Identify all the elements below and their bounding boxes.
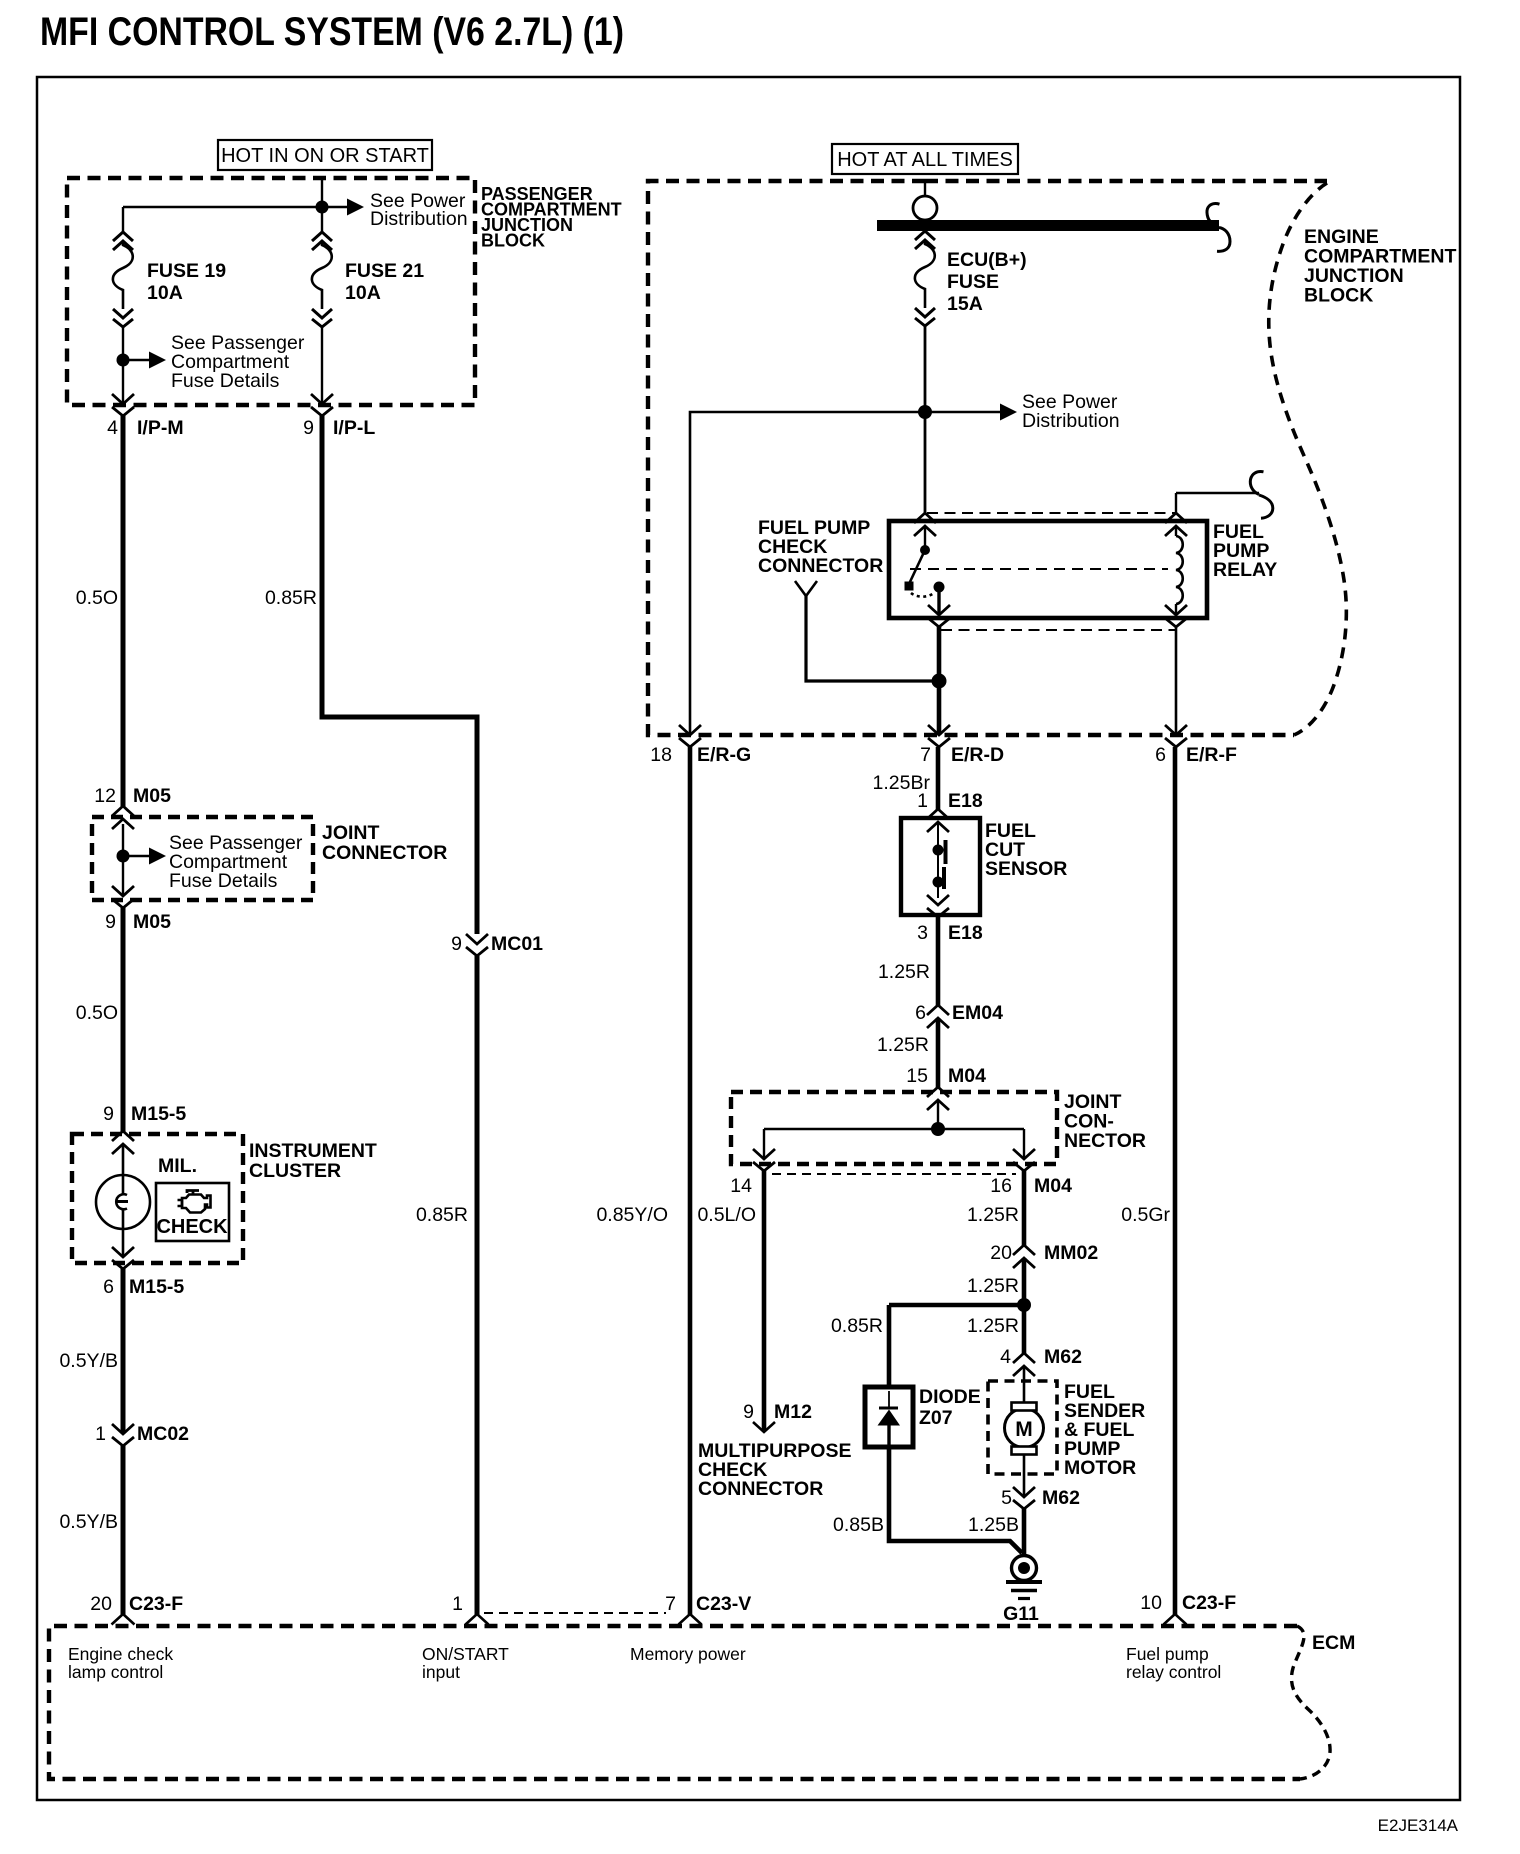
- svg-text:0.5Gr: 0.5Gr: [1121, 1204, 1170, 1226]
- label JOINT CON- NECTOR: [1064, 1091, 1146, 1152]
- svg-text:M62: M62: [1042, 1487, 1080, 1509]
- connector 6 M15-5: [103, 1247, 184, 1298]
- node joint connector: [931, 1122, 945, 1136]
- relay coil: [1176, 526, 1183, 614]
- wire inside joint connector: [122, 824, 124, 896]
- see power distribution arrow (top left): [322, 190, 468, 230]
- svg-text:E/R-F: E/R-F: [1186, 744, 1237, 766]
- wire motor down: [1023, 1454, 1026, 1496]
- wire fuse21 top stub: [321, 179, 323, 207]
- connector 4 M62: [1000, 1346, 1082, 1376]
- svg-text:20: 20: [90, 1593, 112, 1615]
- svg-text:M62: M62: [1044, 1346, 1082, 1368]
- svg-text:1.25R: 1.25R: [878, 961, 930, 983]
- wire W2 harness I/P-L down, jog right, down to MC01: [322, 414, 477, 934]
- wire branch 14 down to M12: [762, 1170, 767, 1430]
- label HOT AT ALL TIMES: [832, 144, 1018, 174]
- svg-text:10A: 10A: [147, 282, 183, 304]
- see power distribution arrow (engine block): [925, 391, 1120, 432]
- sensor FUEL CUT SENSOR box: [901, 818, 980, 915]
- svg-text:1: 1: [95, 1423, 106, 1445]
- svg-text:C23-F: C23-F: [1182, 1592, 1236, 1614]
- svg-text:lamp control: lamp control: [68, 1662, 163, 1682]
- svg-text:C23-F: C23-F: [129, 1593, 183, 1615]
- svg-text:M05: M05: [133, 785, 171, 807]
- wire horizontal to diode: [889, 1305, 1024, 1387]
- wire diode return to ground: [889, 1447, 1022, 1553]
- fuse FUSE 21 10A: [312, 207, 424, 327]
- connector 9 I/P-L: [303, 394, 375, 439]
- svg-text:M04: M04: [948, 1065, 986, 1087]
- svg-text:10A: 10A: [345, 282, 381, 304]
- svg-text:Distribution: Distribution: [1022, 410, 1120, 432]
- fuel sender dashed box: [988, 1381, 1057, 1474]
- svg-text:4: 4: [107, 417, 118, 439]
- wire W3 E/R-G to ECM: [688, 747, 693, 1615]
- connector 6 EM04: [915, 1002, 1003, 1028]
- label DIODE Z07: [919, 1386, 981, 1429]
- dashed connector row below fuel pump relay: [941, 629, 1176, 631]
- relay pin bottom-left connector: [928, 605, 950, 627]
- connector exit 14: [730, 1149, 775, 1197]
- svg-text:HOT IN ON OR START: HOT IN ON OR START: [221, 145, 429, 167]
- connector 3 E18: [917, 895, 983, 944]
- wire check connector to node: [806, 596, 938, 681]
- node junction at fuse21: [316, 201, 329, 214]
- svg-text:0.85R: 0.85R: [831, 1315, 883, 1337]
- connector 6 E/R-F: [1155, 725, 1237, 766]
- wire E18 to EM04: [936, 916, 941, 1007]
- label FUEL PUMP CHECK CONNECTOR: [758, 517, 883, 577]
- svg-text:ON/START: ON/START: [422, 1644, 509, 1664]
- svg-text:CLUSTER: CLUSTER: [249, 1160, 341, 1182]
- svg-text:5: 5: [1001, 1487, 1012, 1509]
- svg-text:CHECK: CHECK: [156, 1216, 228, 1238]
- wire W1 M15-5 to MC02: [121, 1268, 126, 1433]
- engine compartment junction block wavy right edge: [1269, 183, 1347, 735]
- svg-text:M15-5: M15-5: [131, 1103, 186, 1125]
- svg-text:10: 10: [1140, 1592, 1162, 1614]
- wire W1 MC02 to ECM: [121, 1445, 126, 1615]
- pin function engine check lamp control: [68, 1644, 173, 1682]
- svg-text:SENSOR: SENSOR: [985, 858, 1067, 880]
- svg-text:ECU(B+): ECU(B+): [947, 249, 1027, 271]
- connector exit 16 M04: [990, 1149, 1072, 1197]
- wire branch to E/R-G: [690, 412, 925, 735]
- svg-text:6: 6: [1155, 744, 1166, 766]
- connector 12 M05: [94, 785, 171, 829]
- svg-text:0.85Y/O: 0.85Y/O: [596, 1204, 668, 1226]
- connector 9 M15-5: [103, 1103, 186, 1154]
- label INSTRUMENT CLUSTER: [249, 1140, 377, 1182]
- node to diode branch: [1017, 1298, 1031, 1312]
- svg-text:MOTOR: MOTOR: [1064, 1457, 1136, 1479]
- svg-text:MFI CONTROL SYSTEM (V6 2.7L) (: MFI CONTROL SYSTEM (V6 2.7L) (1): [40, 10, 624, 54]
- node relay output: [932, 674, 947, 689]
- svg-text:9: 9: [105, 911, 116, 933]
- wire relay output down: [937, 627, 942, 735]
- svg-text:CONNECTOR: CONNECTOR: [698, 1478, 823, 1500]
- svg-text:E18: E18: [948, 922, 983, 944]
- svg-text:M05: M05: [133, 911, 171, 933]
- svg-text:E/R-G: E/R-G: [697, 744, 751, 766]
- svg-text:C23-V: C23-V: [696, 1593, 751, 1615]
- node circle battery feed: [913, 196, 937, 220]
- connector 20 C23-F at ECM: [90, 1593, 183, 1625]
- svg-text:I/P-L: I/P-L: [333, 417, 375, 439]
- wire fuse21 to connector: [321, 327, 323, 403]
- svg-text:0.5O: 0.5O: [76, 587, 118, 609]
- passenger compartment junction block (dashed): [67, 178, 475, 405]
- svg-text:1.25B: 1.25B: [968, 1514, 1019, 1536]
- ECM box (dashed with wavy right edge): [49, 1626, 1300, 1779]
- curl at bus bar end: [1207, 204, 1220, 222]
- svg-text:14: 14: [730, 1175, 752, 1197]
- svg-text:15A: 15A: [947, 293, 983, 315]
- svg-text:DIODE: DIODE: [919, 1386, 981, 1408]
- dashed connector row above fuel pump relay: [927, 512, 1176, 514]
- svg-text:9: 9: [743, 1401, 754, 1423]
- joint connector box (center, dashed): [731, 1092, 1057, 1164]
- svg-text:20: 20: [990, 1242, 1012, 1264]
- svg-text:G11: G11: [1003, 1603, 1039, 1625]
- svg-text:FUSE: FUSE: [947, 271, 999, 293]
- svg-text:Fuse Details: Fuse Details: [171, 370, 280, 392]
- wire M62 into motor: [1023, 1366, 1026, 1403]
- arrow end 9 M12: [743, 1401, 812, 1432]
- connector 1 E18: [917, 790, 983, 832]
- svg-text:M12: M12: [774, 1401, 812, 1423]
- svg-text:0.5Y/B: 0.5Y/B: [59, 1511, 118, 1533]
- svg-text:BLOCK: BLOCK: [481, 231, 545, 251]
- svg-text:MC01: MC01: [491, 933, 543, 955]
- wire to ground: [1022, 1508, 1027, 1556]
- ground G11: [1003, 1556, 1042, 1626]
- wire ECU fuse down to relay: [924, 326, 927, 515]
- joint connector box (left): [92, 817, 313, 900]
- wire through bulb: [122, 1144, 125, 1257]
- connector 4 I/P-M: [107, 394, 183, 439]
- connector 1 MC02: [95, 1423, 189, 1446]
- svg-text:E18: E18: [948, 790, 983, 812]
- svg-text:12: 12: [94, 785, 116, 807]
- svg-text:HOT AT ALL TIMES: HOT AT ALL TIMES: [837, 149, 1013, 171]
- svg-text:JOINT: JOINT: [322, 822, 380, 844]
- connector 10 C23-F at ECM: [1140, 1592, 1236, 1625]
- svg-text:Memory power: Memory power: [630, 1644, 746, 1664]
- wire E/R-D to fuel cut sensor: [936, 747, 941, 810]
- connector 18 E/R-G: [650, 725, 751, 766]
- relay pin top-left connector: [914, 513, 936, 536]
- connector 5 M62: [1001, 1487, 1080, 1509]
- svg-text:ECM: ECM: [1312, 1632, 1355, 1654]
- wire fuse19 to node: [122, 327, 124, 403]
- svg-text:CONNECTOR: CONNECTOR: [322, 842, 447, 864]
- fuse ECU(B+) FUSE 15A: [915, 231, 1027, 326]
- relay pin top-right connector: [1165, 513, 1187, 536]
- instrument cluster box (dashed): [72, 1134, 243, 1263]
- label PASSENGER COMPARTMENT JUNCTION BLOCK: [481, 184, 622, 251]
- svg-text:E2JE314A: E2JE314A: [1378, 1816, 1459, 1835]
- wire W1 M05 to M15-5: [121, 907, 126, 1133]
- node below ECU fuse: [918, 405, 932, 419]
- svg-text:7: 7: [920, 744, 931, 766]
- label JOINT CONNECTOR: [322, 822, 447, 864]
- see passenger compartment fuse details arrow (top): [123, 332, 305, 392]
- svg-text:Distribution: Distribution: [370, 208, 468, 230]
- icon check engine: [178, 1191, 211, 1213]
- svg-text:MC02: MC02: [137, 1423, 189, 1445]
- svg-text:Engine check: Engine check: [68, 1644, 173, 1664]
- connector 15 M04: [906, 1065, 986, 1110]
- relay switch: [905, 526, 945, 614]
- svg-text:BLOCK: BLOCK: [1304, 285, 1373, 307]
- connector 9 M05: [105, 886, 171, 933]
- lamp MIL bulb: [96, 1175, 150, 1229]
- motor M fuel pump: [1005, 1403, 1044, 1455]
- svg-text:1.25R: 1.25R: [967, 1204, 1019, 1226]
- svg-text:FUSE 19: FUSE 19: [147, 260, 226, 282]
- engine compartment junction block (dashed outline with wavy right edge): [648, 181, 1294, 735]
- svg-text:FUSE 21: FUSE 21: [345, 260, 424, 282]
- dashed row through middle of relay: [910, 568, 1168, 570]
- svg-text:0.5Y/B: 0.5Y/B: [59, 1350, 118, 1372]
- wire W2 MC01 to ECM: [475, 956, 480, 1615]
- svg-text:1.25R: 1.25R: [877, 1034, 929, 1056]
- svg-text:6: 6: [915, 1002, 926, 1024]
- svg-text:MM02: MM02: [1044, 1242, 1098, 1264]
- label FUEL CUT SENSOR: [985, 820, 1067, 880]
- wire W5 E/R-F to ECM: [1173, 747, 1178, 1615]
- svg-text:1.25R: 1.25R: [967, 1315, 1019, 1337]
- ECM wavy right edge: [1291, 1626, 1330, 1779]
- svg-text:input: input: [422, 1662, 460, 1682]
- svg-text:6: 6: [103, 1276, 114, 1298]
- wire horizontal feed to fuse19: [123, 207, 322, 232]
- joint connector internal wires: [764, 1100, 1024, 1159]
- svg-text:INSTRUMENT: INSTRUMENT: [249, 1140, 377, 1162]
- svg-text:Fuse Details: Fuse Details: [169, 870, 278, 892]
- svg-text:18: 18: [650, 744, 672, 766]
- svg-text:0.85R: 0.85R: [416, 1204, 468, 1226]
- connector 7 E/R-D: [920, 725, 1004, 766]
- fuel pump check connector half: [795, 581, 817, 596]
- svg-text:1: 1: [917, 790, 928, 812]
- wire relay coil return down: [1175, 627, 1178, 735]
- pin function ON/START input: [422, 1644, 509, 1682]
- svg-text:relay control: relay control: [1126, 1662, 1221, 1682]
- svg-text:M: M: [1015, 1418, 1033, 1441]
- svg-text:4: 4: [1000, 1346, 1011, 1368]
- svg-text:9: 9: [103, 1103, 114, 1125]
- label ENGINE COMPARTMENT JUNCTION BLOCK: [1304, 226, 1456, 307]
- connector 9 MC01: [451, 933, 543, 956]
- label HOT IN ON OR START: [218, 140, 432, 170]
- svg-text:16: 16: [990, 1175, 1012, 1197]
- svg-text:RELAY: RELAY: [1213, 559, 1277, 581]
- svg-text:M04: M04: [1034, 1175, 1072, 1197]
- bus bar (thick): [877, 220, 1219, 231]
- svg-text:7: 7: [665, 1593, 676, 1615]
- fuel cut sensor internals: [933, 823, 946, 898]
- svg-text:0.5L/O: 0.5L/O: [697, 1204, 756, 1226]
- wire stub from hot at all times: [924, 182, 926, 196]
- label FUEL SENDER & FUEL PUMP MOTOR: [1064, 1381, 1145, 1479]
- wire EM04 to M04: [936, 1018, 941, 1089]
- svg-text:0.5O: 0.5O: [76, 1002, 118, 1024]
- wire branch 16 down to MM02: [1022, 1170, 1027, 1247]
- svg-text:E/R-D: E/R-D: [951, 744, 1004, 766]
- svg-text:0.85B: 0.85B: [833, 1514, 884, 1536]
- node on fuse19 wire: [117, 354, 130, 367]
- thin dashed row below joint connector: [772, 1173, 1016, 1175]
- svg-text:Fuel pump: Fuel pump: [1126, 1644, 1209, 1664]
- fuse FUSE 19 10A: [113, 232, 226, 327]
- check engine CHECK box: [156, 1183, 229, 1241]
- svg-text:0.85R: 0.85R: [265, 587, 317, 609]
- svg-text:EM04: EM04: [952, 1002, 1003, 1024]
- thin dashed link pin1 to pin7: [484, 1612, 666, 1614]
- svg-text:9: 9: [303, 417, 314, 439]
- wire relay coil feed with curl: [1176, 472, 1273, 519]
- relay FUEL PUMP RELAY box: [889, 521, 1207, 618]
- label FUEL PUMP RELAY: [1213, 521, 1277, 581]
- svg-text:9: 9: [451, 933, 462, 955]
- label MULTIPURPOSE CHECK CONNECTOR: [698, 1440, 851, 1500]
- svg-text:NECTOR: NECTOR: [1064, 1130, 1146, 1152]
- see passenger compartment fuse details arrow (joint connector): [123, 832, 303, 892]
- connector 7 C23-V at ECM: [665, 1593, 751, 1625]
- svg-text:I/P-M: I/P-M: [137, 417, 184, 439]
- svg-text:MIL.: MIL.: [158, 1155, 197, 1177]
- connector 20 MM02: [990, 1242, 1098, 1268]
- svg-text:15: 15: [906, 1065, 928, 1087]
- svg-text:1: 1: [452, 1593, 463, 1615]
- relay pin bottom-right connector: [1165, 605, 1187, 627]
- svg-text:Z07: Z07: [919, 1407, 953, 1429]
- svg-text:1.25R: 1.25R: [967, 1275, 1019, 1297]
- diode DIODE Z07: [865, 1387, 913, 1447]
- svg-text:3: 3: [917, 922, 928, 944]
- pin function fuel pump relay control: [1126, 1644, 1221, 1682]
- wire MM02 to node: [1022, 1258, 1027, 1354]
- engine compartment junction block top edge right part: [925, 179, 1327, 183]
- wire W1 harness I/P-M down to M05: [121, 414, 126, 807]
- svg-text:CONNECTOR: CONNECTOR: [758, 555, 883, 577]
- node inside joint connector: [117, 850, 130, 863]
- connector 1 at ECM: [452, 1593, 488, 1625]
- svg-text:M15-5: M15-5: [129, 1276, 184, 1298]
